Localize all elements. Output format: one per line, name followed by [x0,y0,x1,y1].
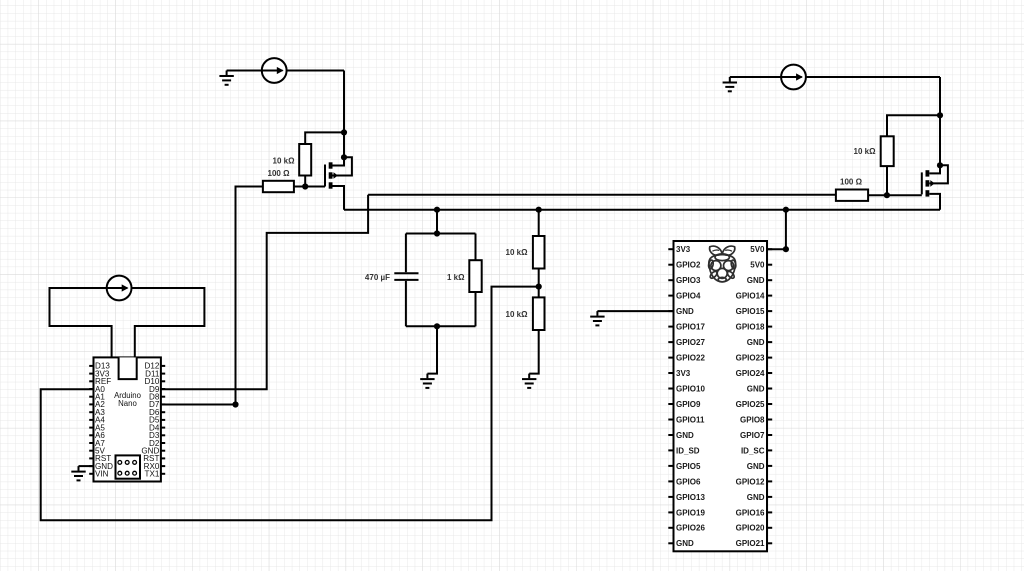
svg-text:GPIO11: GPIO11 [676,415,705,424]
wire gate1 [294,186,325,188]
svg-text:1 kΩ: 1 kΩ [447,273,465,282]
svg-text:100 Ω: 100 Ω [268,169,291,178]
transistor Q2 NMOS right [922,165,948,196]
wire loop sensor [50,288,205,357]
wire main vertical left [343,71,345,158]
junction node bus2/R5 [536,207,542,213]
svg-text:ID_SC: ID_SC [741,446,765,455]
wire R7 bottom [886,166,888,195]
wire R1 bottom [304,176,306,187]
svg-text:GND: GND [676,307,694,316]
ground GND2 [723,77,737,91]
svg-text:GPIO4: GPIO4 [676,292,701,301]
svg-text:GND: GND [676,539,694,548]
svg-text:VIN: VIN [95,470,109,479]
svg-text:3V3: 3V3 [676,245,691,254]
wire Q1 source down [333,186,345,210]
junction node drain2/R7 [937,112,943,118]
ground GND5 [522,374,536,388]
ground GND6 [71,466,85,480]
svg-text:GPIO15: GPIO15 [736,307,765,316]
svg-text:Nano: Nano [118,399,137,408]
svg-text:GPIO19: GPIO19 [676,508,705,517]
wire divider mid [538,269,540,298]
junction node divider mid [536,284,542,290]
svg-text:GPIO18: GPIO18 [736,323,765,332]
svg-text:GND: GND [747,462,765,471]
svg-text:GPIO25: GPIO25 [736,400,765,409]
U1 USB notch [119,357,137,379]
svg-text:GND: GND [747,384,765,393]
wire C1 R3 top rail [406,233,476,235]
svg-text:GPIO16: GPIO16 [736,508,765,517]
junction node C1 bottom rail [434,323,440,329]
svg-text:GPIO22: GPIO22 [676,354,705,363]
svg-text:10 kΩ: 10 kΩ [506,310,529,319]
svg-text:GND: GND [747,338,765,347]
svg-text:ID_SD: ID_SD [676,446,700,455]
svg-text:10 kΩ: 10 kΩ [506,248,529,257]
ground GND1 [219,71,233,85]
junction node drain1/R1 [341,129,347,135]
svg-text:GPIO17: GPIO17 [676,323,705,332]
resistor R5 10k divider top [533,236,545,269]
svg-text:GPIO6: GPIO6 [676,477,701,486]
svg-text:GPIO8: GPIO8 [740,415,765,424]
junction node 5V0 pin [783,246,789,252]
wire net Arduino GND [79,465,94,467]
wire R3 bottom lead [475,292,477,326]
wire net VCC2 top [730,76,940,78]
svg-text:GPIO23: GPIO23 [736,354,765,363]
svg-text:5V0: 5V0 [750,261,765,270]
svg-text:5V0: 5V0 [750,245,765,254]
wire main vertical right [939,77,941,165]
svg-text:GPIO20: GPIO20 [736,524,765,533]
wire C1 to ground [427,326,437,373]
svg-text:GPIO26: GPIO26 [676,524,705,533]
svg-text:GPIO21: GPIO21 [736,539,765,548]
IC U1 Arduino Nano [94,357,161,481]
junction node bus2/5V0 [783,207,789,213]
junction node C1 top rail [434,230,440,236]
wire R3 top lead [475,234,477,261]
svg-text:GPIO12: GPIO12 [736,477,765,486]
svg-text:GPIO10: GPIO10 [676,384,705,393]
svg-text:470 µF: 470 µF [365,273,390,282]
resistor R8 100 ohm gate series right [836,190,868,201]
svg-text:GPIO24: GPIO24 [736,369,765,378]
junction node drain1 [341,154,347,160]
U2 pin labels [676,245,765,548]
wire net RPi GND [597,310,673,312]
wire Q2 source down [929,194,940,210]
ground GND4 [420,374,434,388]
wire C1 bottom lead [405,281,407,326]
current source I2 [781,65,806,90]
junction node D7 corner [232,401,238,407]
svg-text:GPIO5: GPIO5 [676,462,701,471]
svg-text:GPIO14: GPIO14 [736,292,765,301]
current source I3 [107,276,132,301]
svg-text:GPIO7: GPIO7 [740,431,765,440]
wire R6 to ground [529,330,539,374]
svg-text:GPIO2: GPIO2 [676,261,701,270]
svg-text:GPIO3: GPIO3 [676,276,701,285]
junction node gate1 [302,183,308,189]
svg-text:GND: GND [676,431,694,440]
wire net VCC1 top [227,70,344,72]
svg-text:TX1: TX1 [145,470,160,479]
resistor R1 10k gate pullup left [299,144,311,176]
wire net D7 to R2 [161,187,263,405]
svg-text:GND: GND [747,493,765,502]
resistor R6 10k divider bottom [533,297,545,330]
svg-text:GPIO27: GPIO27 [676,338,705,347]
IC U2 Raspberry Pi GPIO header [674,241,768,551]
wire R7 top hook [887,115,940,136]
U1 ICSP header [116,455,141,478]
wire bus2 source rail [344,209,940,211]
U2 pin stubs [668,249,772,543]
wire R5 top lead [538,210,540,236]
wire net A0 sense [41,287,539,521]
wire net D9 to bus1 [161,195,368,389]
wire R1 top hook [305,132,344,144]
transistor Q1 NMOS left [325,157,352,188]
wire net 5V0 [767,210,786,250]
resistor R7 10k gate pullup right [881,136,894,166]
junction node drain2 [937,162,943,168]
svg-text:100 Ω: 100 Ω [840,177,863,186]
U1 pin labels [95,362,160,479]
wire bus1 gate rail [368,194,836,196]
svg-text:GPIO9: GPIO9 [676,400,701,409]
svg-text:10 kΩ: 10 kΩ [273,156,296,165]
current source I1 [262,58,287,83]
capacitor C1 470uF [394,273,418,280]
resistor R2 100 ohm gate series left [263,181,294,192]
wire gate2 [868,194,922,196]
svg-text:GND: GND [747,276,765,285]
svg-text:10 kΩ: 10 kΩ [854,147,877,156]
resistor R3 1k load [469,260,481,292]
svg-text:GPIO13: GPIO13 [676,493,705,502]
svg-text:3V3: 3V3 [676,369,691,378]
ground GND3 [590,311,604,325]
U2 raspberry pi logo [708,246,736,282]
wire C1 top lead [405,234,407,273]
U1 pin stubs [89,366,165,474]
wire bus2 to C1 top [436,210,438,234]
junction node gate2 [884,192,890,198]
junction node bus2/C1 [434,207,440,213]
wire C1 R3 bottom rail [406,325,476,327]
